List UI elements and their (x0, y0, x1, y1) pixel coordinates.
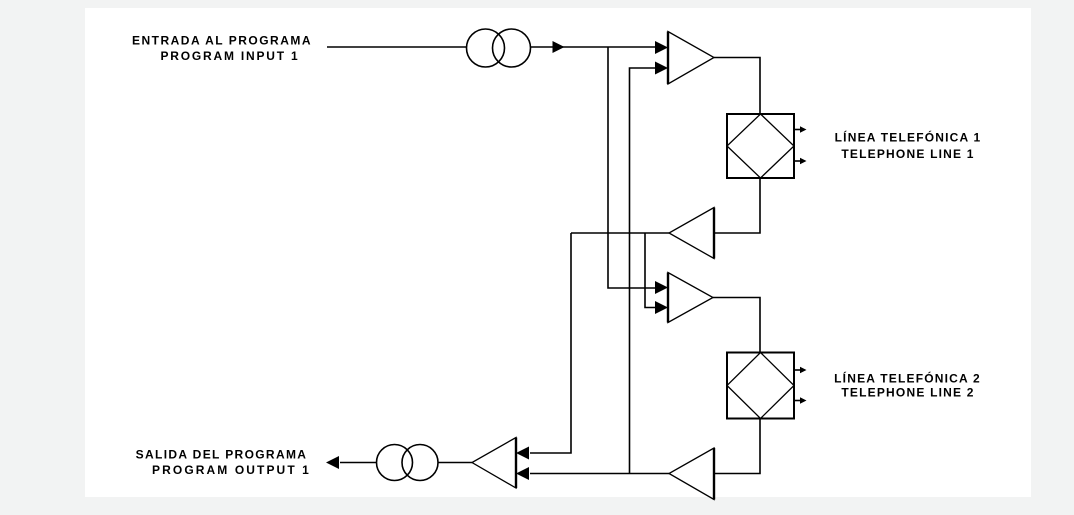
wire U2 output to summing amp U5 input 1 (530, 233, 571, 453)
wire U3 output to hybrid H2 (713, 298, 760, 353)
amplifier U3 (line 2 transmit) (668, 273, 713, 323)
wire U1 input 2 (cross-feed from line 2 receive amp) (630, 68, 657, 474)
H1 telephone line terminal stub a (794, 126, 807, 132)
H2 telephone line terminal stub b (794, 397, 807, 403)
hybrid transformer H2 square (727, 353, 794, 419)
wire U2 output (571, 232, 669, 234)
wire hybrid H2 to U4 input (714, 419, 760, 474)
transformer T2 (377, 445, 439, 481)
label LÍNEA TELEFÓNICA 2 / TELEPHONE LINE 2 (834, 371, 981, 400)
wire program input (left segment) (327, 46, 466, 48)
wire program input (right segment to U1 input 1) (531, 46, 657, 48)
wire U5 output to transformer T2 (438, 462, 472, 464)
arrowhead U1 input 1 (655, 41, 668, 54)
arrowhead U3 input 1 (655, 281, 668, 294)
hybrid transformer H1 square (727, 114, 794, 178)
label LÍNEA TELEFÓNICA 1 / TELEPHONE LINE 1 (835, 130, 982, 162)
svg-text:LÍNEA TELEFÓNICA 2: LÍNEA TELEFÓNICA 2 (834, 371, 981, 386)
amplifier U4 (line 2 receive) (669, 448, 714, 500)
amplifier U2 (line 1 receive) (669, 208, 714, 259)
svg-text:TELEPHONE LINE 1: TELEPHONE LINE 1 (841, 147, 974, 161)
hybrid H1 diamond (727, 114, 794, 178)
amplifier U1 (line 1 transmit) (668, 32, 714, 85)
H2 telephone line terminal stub a (794, 367, 807, 373)
arrowhead U5 input 1 (516, 447, 529, 460)
summing amplifier U5 (program output) (472, 438, 516, 489)
svg-text:SALIDA DEL PROGRAMA: SALIDA DEL PROGRAMA (136, 448, 308, 462)
arrowhead on program input wire (553, 41, 565, 53)
svg-text:LÍNEA TELEFÓNICA 1: LÍNEA TELEFÓNICA 1 (835, 130, 982, 145)
label ENTRADA AL PROGRAMA / PROGRAM INPUT 1 (132, 34, 312, 64)
svg-text:TELEPHONE LINE 2: TELEPHONE LINE 2 (841, 386, 974, 400)
arrowhead program output (326, 456, 339, 469)
arrowhead U3 input 2 (655, 301, 668, 314)
svg-text:ENTRADA AL PROGRAMA: ENTRADA AL PROGRAMA (132, 34, 312, 48)
wire U1 output to hybrid H1 (714, 58, 760, 115)
wire program input to U3 input 1 (608, 47, 656, 288)
svg-text:PROGRAM OUTPUT 1: PROGRAM OUTPUT 1 (152, 463, 311, 477)
arrowhead U5 input 2 (516, 467, 529, 480)
arrowhead U1 input 2 (655, 62, 668, 75)
hybrid H2 diamond (727, 353, 794, 419)
wire U4 output to summing amp U5 input 2 (530, 473, 669, 475)
wire cross-feed line1 to U3 input 2 (645, 233, 656, 308)
H1 telephone line terminal stub b (794, 158, 807, 164)
wire hybrid H1 to U2 input (714, 178, 760, 233)
wire T2 to program output arrow (340, 462, 377, 464)
label SALIDA DEL PROGRAMA / PROGRAM OUTPUT 1 (136, 448, 311, 478)
transformer T1 (467, 29, 531, 67)
svg-text:PROGRAM INPUT 1: PROGRAM INPUT 1 (160, 49, 299, 63)
